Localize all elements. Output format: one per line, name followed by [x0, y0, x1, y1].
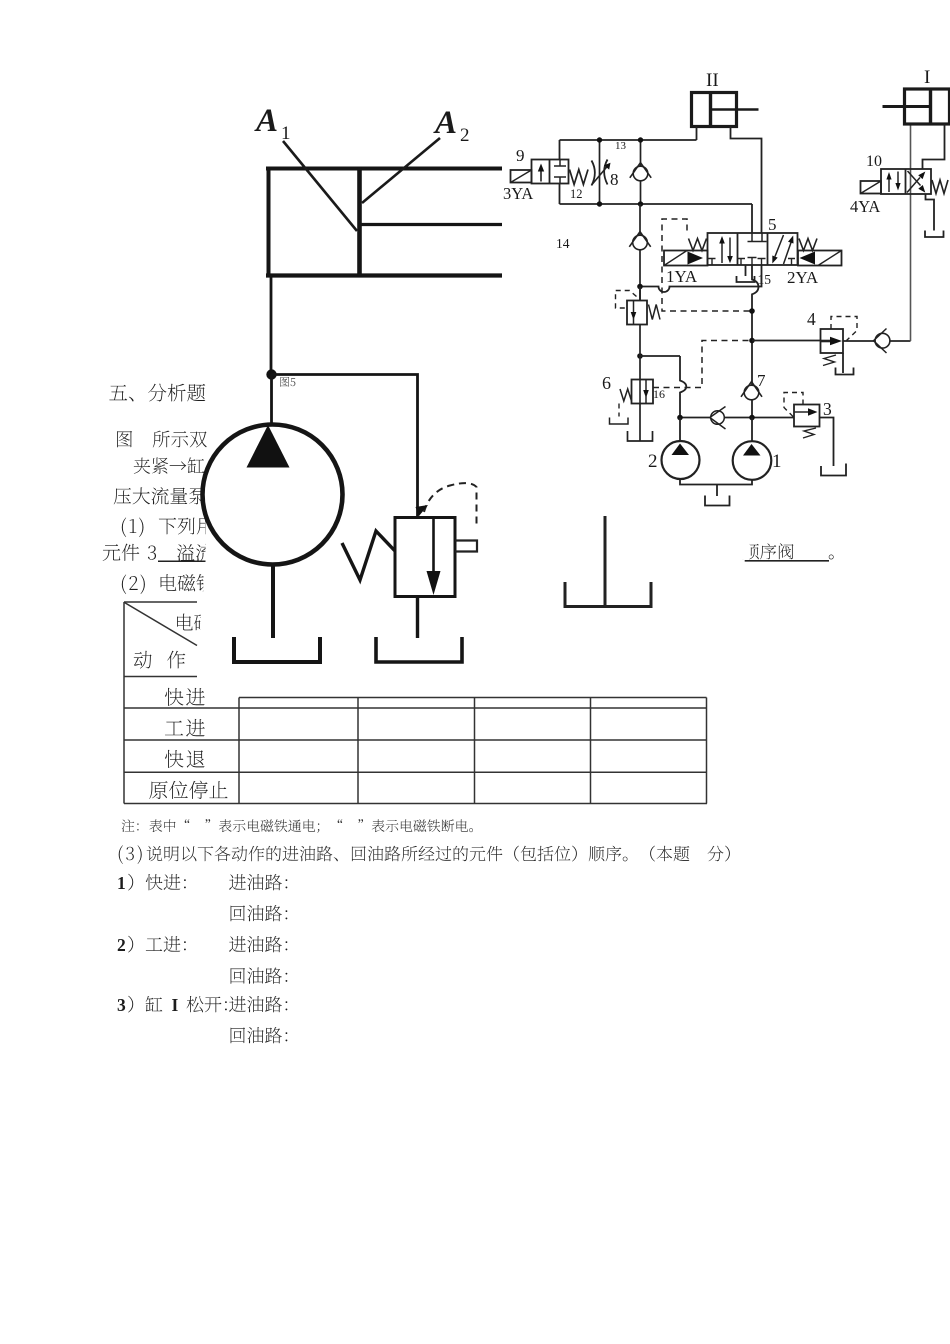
wire check to riser x=910.5 [890, 340, 911, 342]
wire y=287 return line with crossover hop [640, 265, 762, 292]
wire y=340 to valve 4 [752, 340, 821, 342]
wire node356 down to valve 6 [639, 325, 641, 442]
valve 10 solenoid 4YA [861, 181, 882, 194]
check valve 7 [744, 385, 759, 400]
svg-text:4: 4 [807, 309, 816, 329]
svg-text:3YA: 3YA [503, 184, 533, 203]
valve 3 outlet to tank [820, 418, 834, 467]
tank under relief valve [376, 637, 462, 662]
valve 6 spring (left) [620, 389, 632, 401]
svg-text:6: 6 [602, 373, 611, 393]
valve 5 body (3-pos 4-way) [708, 233, 798, 265]
valve 10 drain to tank [926, 194, 935, 231]
valve 5 right spring [799, 239, 817, 251]
pump (large, fixed displacement) [203, 425, 343, 565]
check valve (top) [633, 166, 648, 181]
svg-text:12: 12 [570, 187, 583, 201]
wire y=204 corner down to valve5 P port [751, 204, 753, 233]
svg-text:15: 15 [758, 272, 772, 287]
relief valve pilot (dashed) [424, 483, 477, 527]
svg-text:2: 2 [117, 935, 126, 955]
svg-text:2YA: 2YA [787, 268, 819, 287]
relief valve drain bracket [455, 541, 477, 552]
svg-text:I: I [172, 995, 179, 1015]
valve 6 drain (dashed) + small tank [618, 404, 620, 417]
svg-text:3: 3 [823, 399, 832, 419]
leader line A1 [283, 141, 357, 231]
svg-text:2: 2 [460, 125, 470, 146]
label A1 [254, 103, 291, 144]
valve 4 (sequence) body [821, 329, 844, 353]
valve 10 spring [932, 180, 948, 194]
wire: junction to relief valve [272, 375, 418, 518]
valve 9 solenoid 3YA box [511, 170, 532, 183]
tank under pump [234, 637, 320, 662]
valve 3 (relief) body [794, 405, 820, 427]
valve 5 tank port + tank below [745, 265, 747, 276]
cyl II right port wire to valve5 [731, 127, 762, 234]
valve 4 pilot dashed [831, 317, 857, 341]
valve 9 right position closed ports [554, 160, 566, 184]
pressure reducing valve (above node 356) [639, 287, 641, 301]
node junction dot (图5) [266, 369, 276, 379]
svg-text:A: A [254, 103, 278, 139]
svg-text:14: 14 [556, 236, 570, 251]
svg-text:4YA: 4YA [850, 197, 880, 216]
pump 2 [679, 418, 681, 443]
relief valve outlet [416, 597, 419, 639]
fill-in underline (元件3) [158, 560, 206, 562]
valve 10 right position crossed arrows [907, 178, 920, 193]
inline check valve (between pumps) [711, 411, 725, 425]
label A2 [433, 105, 470, 146]
valve 9 spring [570, 170, 589, 185]
svg-text:5: 5 [768, 215, 777, 234]
wire: junction down to pump outlet [270, 375, 273, 429]
valve 5 left spring [689, 239, 707, 251]
reducing valve pilot (dashed) [616, 291, 637, 309]
svg-text:8: 8 [610, 170, 619, 189]
svg-text:II: II [706, 70, 719, 91]
valve 10 left position arrows [888, 177, 890, 192]
table grid [124, 602, 707, 804]
wire: top manifold y=140 (valve9 to cyl II) [560, 139, 697, 141]
valve 3 pilot dashed [784, 393, 803, 418]
throttle 8 branch wire [599, 140, 601, 204]
riser x=910.5 (cyl I rod side through valve 10) [910, 124, 912, 341]
check valve branch x=640 (top) [640, 140, 642, 204]
svg-text:9: 9 [516, 146, 525, 165]
cyl II left port wire [696, 127, 698, 141]
svg-text:7: 7 [757, 371, 766, 390]
svg-text:1: 1 [281, 123, 291, 144]
cyl I right port wire [923, 124, 945, 169]
node dots bottom [677, 415, 755, 421]
svg-text:1YA: 1YA [666, 267, 698, 286]
svg-text:13: 13 [615, 140, 627, 152]
check valve (right of valve 4) [875, 333, 890, 348]
standalone tank (middle) [604, 516, 607, 607]
pump 1 [751, 418, 753, 443]
valve 3 spring below [803, 428, 816, 438]
wire: cylinder to junction [270, 276, 273, 375]
wire node356 right + drop to pump2 with hop [640, 356, 686, 418]
wire x=640 manifold to node 287 [639, 204, 641, 301]
svg-text:1: 1 [772, 451, 782, 472]
valve 5 centre position closed ports [748, 233, 767, 242]
valve 5 right position crossed arrows [775, 235, 784, 257]
throttle valve 8 [592, 161, 595, 186]
node dots x=752 [637, 284, 755, 359]
cylinder I body [883, 89, 950, 124]
valve 5 pilot line (dashed) [662, 219, 752, 311]
wire: valve9 top/bottom stubs [559, 140, 561, 160]
valve 9 (2/2 solenoid) body [532, 160, 569, 184]
P riser x=752 with hop over y=287 [752, 265, 759, 418]
valve 5 solenoid 1YA [664, 251, 708, 266]
wire: lower manifold y=204 [560, 203, 753, 205]
svg-text:10: 10 [866, 153, 882, 170]
wire valve4 to check [843, 340, 875, 342]
valve 9 left position arrow [540, 168, 542, 182]
valve 5 left position arrows [721, 240, 723, 263]
valve 5 solenoid 2YA [798, 251, 842, 266]
svg-text:1: 1 [117, 873, 126, 893]
relief valve spring [342, 531, 395, 580]
relief valve (big) [395, 518, 455, 597]
valve 4 spring below [823, 355, 836, 366]
svg-text:A: A [433, 105, 457, 141]
tank under valve 6 [628, 431, 653, 441]
cylinder II body [692, 93, 759, 127]
valve 6 (sequence) body [632, 380, 654, 404]
check valve (second, x=640) [633, 235, 648, 250]
svg-text:3: 3 [117, 995, 126, 1015]
pump suction line [271, 564, 275, 638]
valve 6 pilot (dashed, to node 340) [653, 341, 752, 388]
svg-text:I: I [924, 67, 930, 88]
valve 4 drain to tank [842, 353, 844, 373]
bottom pump manifold y=417.5 [680, 417, 794, 419]
node dots top manifolds [597, 137, 643, 206]
reducing valve spring (right) [649, 305, 661, 320]
pump suction manifold + tank [680, 479, 752, 485]
cylinder A with pistons A1/A2 [266, 167, 502, 278]
svg-text:2: 2 [648, 451, 658, 472]
svg-text:16: 16 [653, 387, 665, 401]
leader line A2 [362, 138, 440, 203]
fill-in underline (顺序阀) [745, 560, 829, 562]
valve 10 body (2-pos 4-way) [881, 169, 931, 194]
